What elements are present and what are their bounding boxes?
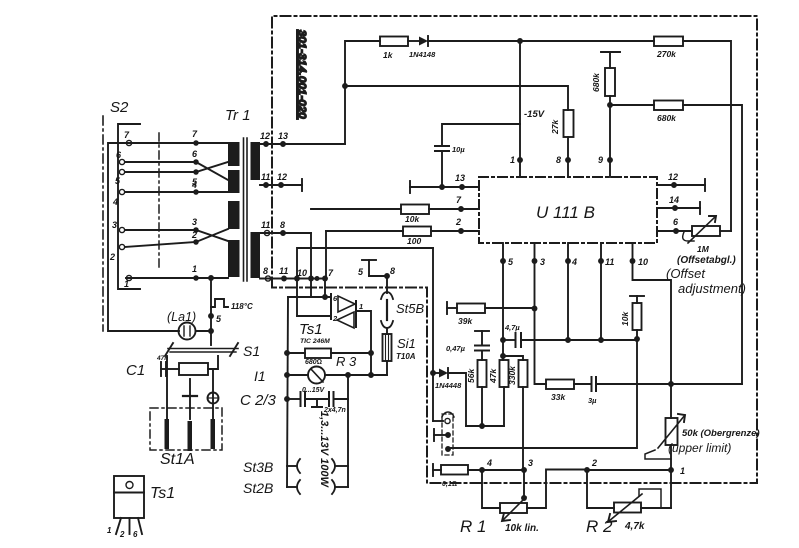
Tr1 primary winding 4 [228, 240, 240, 277]
svg-text:5: 5 [508, 257, 514, 267]
svg-text:11: 11 [261, 172, 270, 182]
node 5 (thermal to lamp) [209, 314, 213, 318]
svg-text:12: 12 [260, 131, 270, 141]
svg-text:11: 11 [261, 220, 270, 230]
svg-text:5: 5 [216, 314, 222, 324]
svg-text:47k: 47k [488, 368, 498, 384]
resistor 680k (vertical, open top) [601, 51, 620, 53]
capacitor 10u [441, 151, 443, 187]
svg-text:4,7µ: 4,7µ [504, 323, 520, 332]
svg-text:1: 1 [124, 279, 129, 289]
fuse Si1 T10A [386, 328, 388, 334]
diode 1N4448 branch [431, 371, 435, 375]
shunt resistor 0,1 ohm [432, 464, 434, 476]
Tr1 primary winding 2 [228, 170, 240, 193]
svg-text:10k: 10k [405, 214, 420, 224]
rectifier riser x345 [345, 41, 380, 144]
svg-text:7: 7 [456, 195, 462, 205]
svg-text:680k: 680k [657, 113, 677, 123]
svg-text:3: 3 [112, 220, 117, 230]
label 301-314.001-020 [296, 30, 308, 119]
svg-text:100: 100 [407, 236, 421, 246]
wire S2 pin5 (crossed to Tr1) [125, 162, 228, 172]
svg-text:TIC 246M: TIC 246M [300, 338, 330, 345]
svg-text:50k (Obergrenze): 50k (Obergrenze) [682, 428, 760, 439]
svg-text:Tr 1: Tr 1 [225, 107, 251, 124]
diode 1N4148 [419, 37, 428, 46]
wire 3u to x742 rail [596, 383, 742, 385]
wire secondary pins 12/13 to rectifier rail [260, 143, 345, 145]
wire S2 pin3 (crossed to Tr1) [125, 230, 228, 241]
Tr1 secondary winding 1 [251, 142, 261, 180]
capacitor 0,47u with open top [475, 330, 489, 332]
transistor Ts1 package (TO-220 front view) [114, 476, 144, 518]
svg-text:R 2: R 2 [586, 517, 613, 536]
svg-text:7: 7 [328, 268, 334, 278]
capacitor C1 network [161, 368, 167, 370]
svg-text:10µ: 10µ [452, 145, 465, 154]
wire junction down to S1 right blade [210, 331, 212, 345]
tie wire 47k/330k tops [501, 354, 505, 358]
resistor 47k (vertical) [502, 356, 504, 360]
svg-text:6: 6 [192, 149, 198, 159]
svg-text:4: 4 [571, 257, 577, 267]
svg-text:12: 12 [277, 172, 287, 182]
svg-text:8: 8 [280, 220, 285, 230]
wire to St5B pin 8 [369, 275, 387, 277]
svg-text:(Offset: (Offset [666, 266, 706, 281]
svg-text:1N4448: 1N4448 [435, 381, 462, 390]
wire S2 pin7 to node 7 and Tr1 [126, 142, 228, 144]
S2 contact 6 [119, 159, 124, 164]
U111B pin 3 column [535, 243, 547, 384]
svg-text:1: 1 [510, 155, 515, 165]
wire left rail from S2 pin7 to lamp row [108, 143, 179, 331]
Tr1 primary winding 3 [228, 201, 240, 229]
svg-text:680Ω: 680Ω [305, 359, 322, 366]
module border (dash-dot boundary 301-314.001-020) [272, 16, 757, 483]
wire triac MT2 to R3 right [356, 311, 371, 375]
svg-text:13: 13 [455, 173, 465, 183]
svg-text:3: 3 [528, 458, 533, 468]
wire pin3 to R1 wiper [523, 470, 525, 498]
svg-text:6: 6 [116, 150, 122, 160]
svg-text:9: 9 [598, 155, 603, 165]
svg-text:T10A: T10A [396, 352, 416, 361]
contact cluster (relay/connector) top contact [433, 420, 443, 422]
left rail x287 [287, 297, 288, 487]
S2 contact 2 [119, 244, 124, 249]
-15V rail to pin 1 [519, 41, 521, 177]
svg-text:2: 2 [109, 252, 115, 262]
svg-text:C1: C1 [126, 362, 145, 379]
wire S2 pin2 (crossed to Tr1) [125, 229, 228, 247]
wire 330k down to border pin 3 [522, 387, 524, 470]
wire 27k to pin 8 [567, 137, 569, 177]
U111B pin 10 column to 50k pot [633, 243, 672, 418]
triac Ts1 (TIC 246M) [330, 294, 332, 319]
op-amp IC U111B (dash-dot outline) [479, 177, 657, 243]
potentiometer R1 10k lin [500, 503, 527, 513]
wire 270k to x731 riser down to 1M pot [683, 41, 731, 231]
svg-text:27k: 27k [550, 119, 560, 135]
svg-text:St5B: St5B [396, 301, 425, 316]
wire S2 pin6 (crossed to Tr1) [125, 162, 228, 180]
ground symbol [189, 379, 191, 396]
label 1,3...13V 100W (rotated) [318, 411, 330, 488]
svg-text:1: 1 [107, 526, 112, 535]
wire secondary pins 11/12 (open end) [260, 184, 302, 186]
switch S1 [168, 348, 238, 350]
St1A prong 3 [211, 419, 216, 449]
wire pin 11/8 riser down to triac gate row [310, 233, 312, 297]
resistor 56k (vertical) [478, 360, 487, 387]
svg-text:(Offsetabgl.): (Offsetabgl.) [677, 255, 736, 266]
Tr1 secondary winding 2 [251, 232, 261, 278]
svg-text:S1: S1 [243, 343, 260, 359]
svg-text:11: 11 [279, 266, 288, 276]
resistor 27k (vertical) [564, 110, 574, 137]
capacitor 3u [591, 377, 593, 391]
front panel boundary (dash-dot, left of S2) [102, 116, 104, 331]
wire y86 rail to 27k [345, 86, 568, 110]
svg-text:0,47µ: 0,47µ [446, 344, 466, 353]
resistor R3 680 [285, 351, 289, 355]
terminal 5 (open bar) [362, 259, 376, 261]
U111B pin 14 stub [657, 207, 700, 209]
svg-text:-15V: -15V [524, 109, 545, 120]
svg-text:6: 6 [133, 530, 138, 539]
S2 contact 7 [126, 140, 131, 145]
wire 10k bottom down to y448 [448, 339, 637, 448]
svg-text:4: 4 [112, 197, 118, 207]
svg-text:13: 13 [278, 131, 288, 141]
resistor 680k (horizontal) [654, 101, 683, 111]
resistor 100 [403, 227, 431, 237]
connector St3B [287, 465, 296, 467]
wire pin 7 riser down to triac row [324, 279, 326, 298]
connector St2B [287, 486, 296, 488]
svg-text:10: 10 [297, 268, 307, 278]
svg-text:4: 4 [191, 180, 197, 190]
U111B pin 4 column [567, 243, 569, 340]
svg-text:1M: 1M [697, 244, 710, 254]
wire y105 to 680k horizontal [610, 104, 654, 106]
svg-text:10: 10 [638, 257, 648, 267]
svg-text:Si1: Si1 [397, 336, 416, 351]
border pin 3 [522, 468, 526, 472]
wire pin2 to pin1 [587, 469, 671, 471]
svg-text:10k lin.: 10k lin. [505, 523, 539, 534]
connector St5B [386, 276, 388, 293]
contact cluster coupling (dashed box) [442, 414, 453, 455]
S2 coupling line (dash-dot) [158, 133, 160, 270]
wire pin1 down to R2 right [670, 470, 672, 508]
svg-text:10k: 10k [620, 311, 630, 326]
svg-text:39k: 39k [458, 316, 473, 326]
svg-text:8: 8 [263, 266, 268, 276]
svg-text:1,3...13V 100W: 1,3...13V 100W [318, 411, 330, 488]
svg-text:1: 1 [192, 264, 197, 274]
potentiometer 50k (Obergrenze) [666, 418, 678, 445]
svg-text:St3B: St3B [243, 459, 273, 475]
wire pin 13 (open left end) [410, 186, 479, 188]
resistor 10k [401, 205, 429, 215]
svg-text:14: 14 [669, 195, 679, 205]
capacitors C2/3 row [285, 397, 289, 401]
svg-text:33k: 33k [551, 392, 566, 402]
thermal cutout 118 C [210, 278, 212, 331]
wire +rail y41 to 270k [428, 40, 654, 42]
svg-text:C 2/3: C 2/3 [240, 392, 277, 409]
svg-text:2: 2 [591, 458, 597, 468]
svg-text:R 1: R 1 [460, 517, 486, 536]
U111B pin 11 column [600, 243, 602, 340]
S2 contact 1 [126, 275, 131, 280]
wire 680k to x742 riser down to 3u rail [683, 105, 742, 384]
wire pin4 down to R1 [482, 470, 500, 508]
S2 contact 4 [119, 189, 124, 194]
protective earth symbol [208, 393, 219, 404]
resistor 1k [380, 37, 408, 47]
U111B pin 6 to 1M pot [657, 230, 692, 232]
contact cluster bottom contact [446, 447, 450, 451]
triac Ts1 row wires [288, 296, 330, 298]
svg-text:3: 3 [192, 217, 197, 227]
svg-text:6: 6 [673, 217, 679, 227]
svg-text:680k: 680k [591, 72, 601, 92]
wire R1 right over bump to R2 [527, 470, 614, 509]
potentiometer R2 4,7k (rheostat) [614, 503, 641, 513]
svg-text:118°C: 118°C [231, 302, 253, 311]
svg-text:5: 5 [115, 176, 121, 186]
border pin 4 [480, 468, 484, 472]
svg-text:(La1): (La1) [167, 310, 196, 324]
wire x433 column down to contact [432, 248, 434, 421]
svg-text:2: 2 [119, 530, 125, 539]
wire S2 pin4 to Tr1 [125, 191, 228, 193]
wire node 10 riser (y248 rail to contact column) [297, 248, 433, 279]
svg-text:301-314.001-020: 301-314.001-020 [296, 30, 308, 119]
switch S2 (box) [118, 124, 140, 289]
svg-text:St1A: St1A [160, 451, 195, 468]
svg-text:1: 1 [359, 302, 363, 311]
wire secondary bottom pins 8/11/10/7 [260, 278, 326, 280]
svg-text:1k: 1k [383, 50, 394, 60]
resistor 330k (vertical) [519, 360, 528, 387]
wire 680k junction [609, 96, 611, 177]
svg-text:7: 7 [192, 129, 198, 139]
svg-text:3µ: 3µ [588, 396, 597, 405]
right rail x348 [347, 375, 349, 487]
meter I1 row [285, 373, 289, 377]
svg-text:11: 11 [605, 257, 614, 267]
C2/3 center ground stub [316, 399, 318, 407]
svg-text:2: 2 [332, 314, 338, 323]
potentiometer 1M (Offsetabgl.) [692, 226, 720, 236]
wire pin 7 row [311, 208, 401, 210]
connector St1A (dash-dot box) [150, 408, 222, 450]
St1A prong 2 [188, 421, 193, 451]
wire lamp to junction [196, 330, 212, 332]
svg-text:4,7k: 4,7k [624, 521, 645, 532]
svg-text:56k: 56k [466, 368, 476, 383]
svg-text:I1: I1 [254, 368, 266, 384]
svg-text:7: 7 [124, 130, 130, 140]
svg-text:330k: 330k [507, 365, 517, 385]
U111B pin 12 stub [657, 184, 705, 186]
meter I1 [308, 367, 325, 384]
wire secondary pins 11/8 [260, 232, 311, 234]
wire 1k to diode [408, 40, 419, 42]
resistor 33k row [546, 380, 574, 390]
resistor 10k (vertical, open top) [630, 295, 644, 297]
wire node 10 down to triac MT1 [296, 279, 298, 317]
svg-text:S2: S2 [110, 99, 129, 116]
svg-text:0,1Ω: 0,1Ω [442, 481, 457, 488]
St1A prong 1 [165, 419, 170, 449]
svg-text:8: 8 [390, 266, 395, 276]
svg-text:Ts1: Ts1 [299, 321, 323, 338]
svg-text:(upper limit): (upper limit) [668, 441, 731, 455]
lamp La1 [179, 323, 196, 340]
svg-text:270k: 270k [656, 49, 677, 59]
wire S1 left pole down [166, 356, 168, 420]
capacitor 4,7u row [501, 338, 505, 342]
svg-text:R 3: R 3 [336, 354, 357, 369]
svg-text:U 111 B: U 111 B [536, 203, 595, 222]
border pin 2 [585, 468, 589, 472]
resistor 39k [446, 302, 448, 314]
Tr1 core [243, 138, 245, 281]
wire pin 2 row [326, 230, 403, 232]
Tr1 primary winding 1 [228, 142, 240, 166]
svg-text:2: 2 [455, 217, 461, 227]
svg-text:8: 8 [556, 155, 561, 165]
Ts1 package legs [116, 518, 121, 534]
S2 contact 5 [119, 169, 124, 174]
svg-text:47n: 47n [156, 355, 168, 362]
svg-text:St2B: St2B [243, 480, 273, 496]
svg-text:Ts1: Ts1 [150, 485, 175, 502]
contact cluster middle contact (open) [433, 429, 435, 441]
svg-text:12: 12 [668, 172, 678, 182]
svg-text:adjustment): adjustment) [678, 281, 746, 296]
svg-text:2: 2 [191, 230, 197, 240]
svg-text:5: 5 [358, 267, 364, 277]
U111B pin 5 column [502, 243, 504, 356]
svg-text:4: 4 [486, 458, 492, 468]
junction node to thermal switch [209, 276, 213, 280]
svg-text:1N4148: 1N4148 [409, 50, 436, 59]
resistor 270k [654, 37, 683, 47]
svg-text:3: 3 [540, 257, 545, 267]
svg-text:1: 1 [680, 466, 685, 476]
tie wire 56k/47k bottoms [466, 425, 504, 427]
wire S2 pin1 to Tr1 [126, 277, 228, 279]
S2 contact 3 [119, 227, 124, 232]
